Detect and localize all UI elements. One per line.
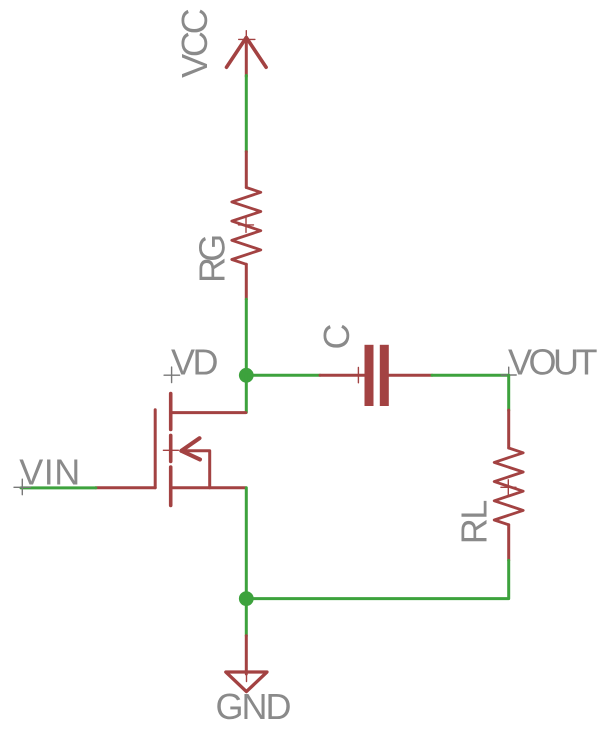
wire RL to ground node <box>246 560 508 598</box>
junction node VD <box>239 368 254 383</box>
wire VOUT down to RL <box>507 375 510 410</box>
wire node to GND symbol <box>245 599 248 636</box>
net label VD origin cross <box>164 367 180 383</box>
svg-text:GND: GND <box>216 686 291 724</box>
capacitor C <box>320 345 432 406</box>
svg-text:C: C <box>316 324 357 350</box>
gate line <box>154 410 157 488</box>
resistor RL <box>494 410 523 560</box>
wire VCC to RG <box>245 76 248 152</box>
svg-text:VIN: VIN <box>19 452 81 493</box>
wire C to VOUT <box>432 374 509 377</box>
wire VIN to gate <box>21 486 96 489</box>
wire node VD to drain <box>245 375 248 412</box>
net label VOUT origin cross <box>501 367 516 382</box>
transistor Q1 (N-MOSFET) <box>96 394 246 506</box>
substrate arrow <box>181 451 209 488</box>
source lead <box>171 486 246 489</box>
drain lead <box>171 411 246 414</box>
origin cross <box>163 443 178 458</box>
supply VCC <box>227 31 267 77</box>
wire RG to node VD <box>245 299 248 375</box>
svg-text:VD: VD <box>171 341 218 382</box>
channel dashes <box>169 394 173 506</box>
net label VIN origin cross <box>14 479 31 495</box>
ground symbol GND <box>226 636 267 692</box>
resistor RG <box>232 152 261 299</box>
wire node VD to C <box>246 374 320 377</box>
junction node at ground net <box>239 591 254 606</box>
wire source to ground node <box>245 488 248 599</box>
svg-text:VCC: VCC <box>174 9 215 78</box>
svg-text:RL: RL <box>454 501 495 544</box>
svg-text:VOUT: VOUT <box>508 341 598 382</box>
gate lead <box>96 486 155 489</box>
svg-text:RG: RG <box>192 236 233 283</box>
